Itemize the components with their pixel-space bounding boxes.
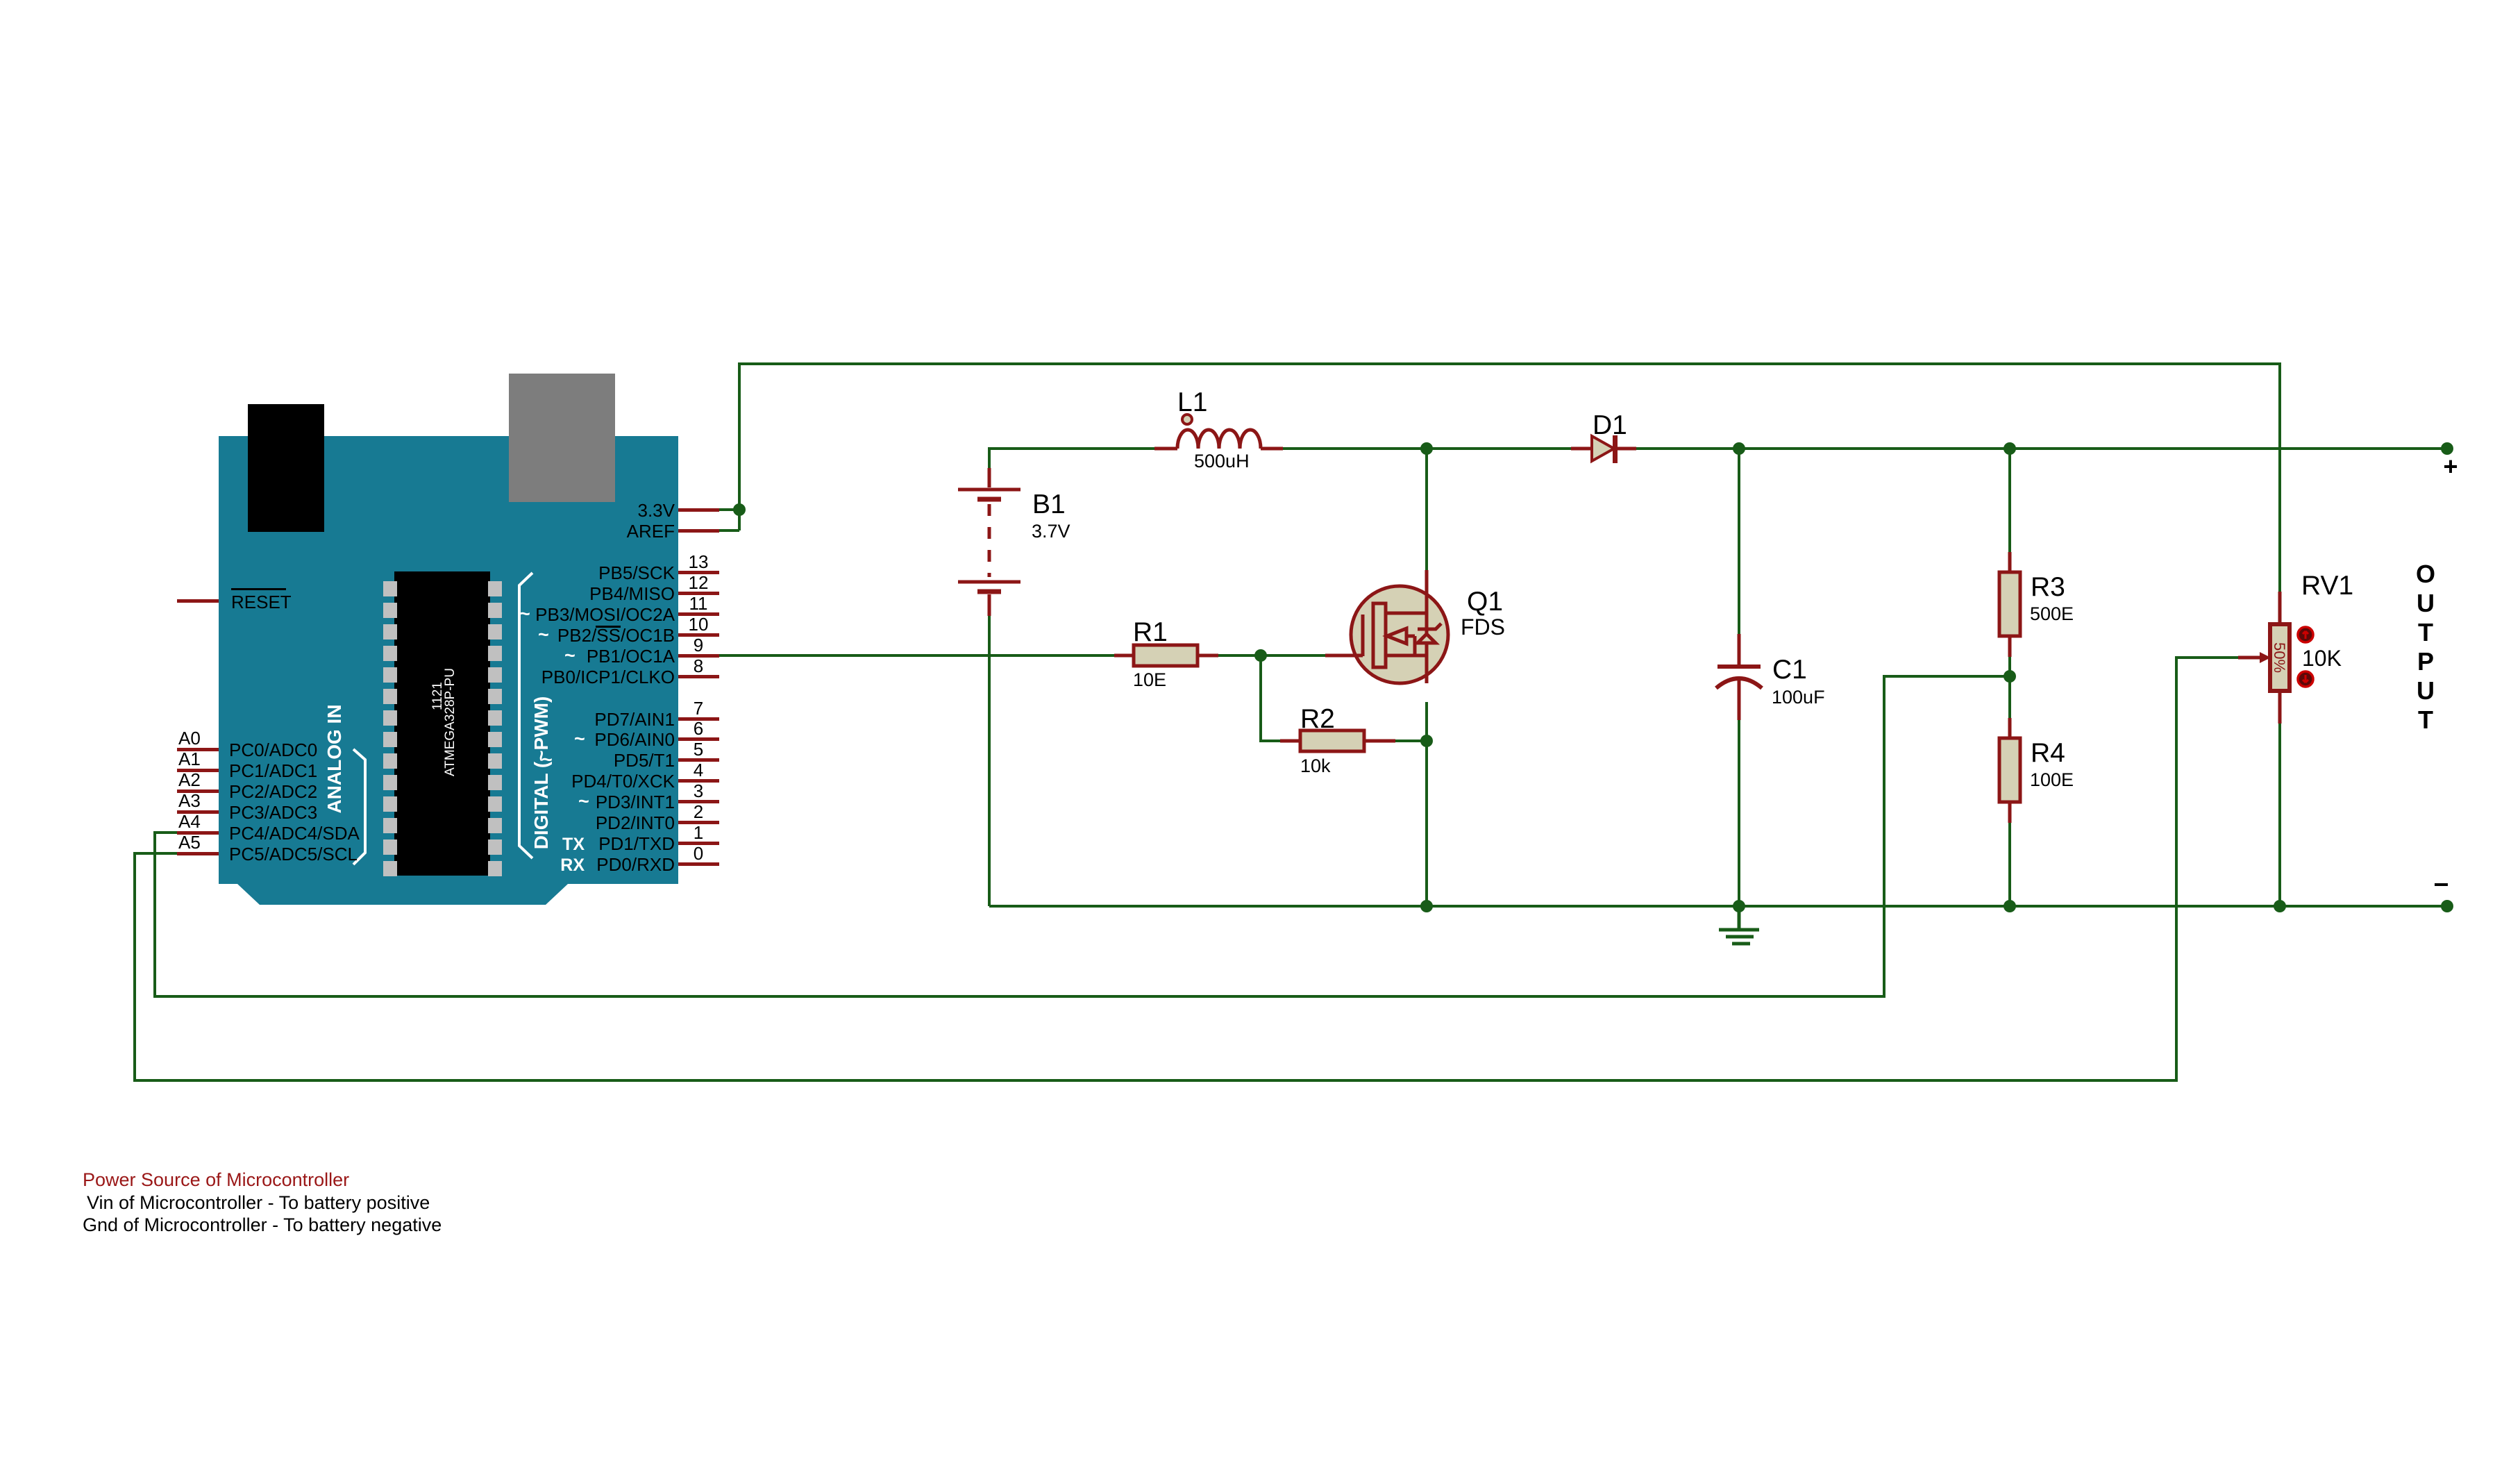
svg-text:6: 6 bbox=[694, 718, 703, 739]
svg-text:RX: RX bbox=[560, 855, 585, 875]
svg-text:T: T bbox=[2418, 705, 2433, 734]
svg-text:TX: TX bbox=[562, 835, 585, 854]
wire R3 bottom to junction bbox=[2008, 657, 2011, 718]
svg-text:R2: R2 bbox=[1300, 704, 1335, 734]
svg-text:13: 13 bbox=[689, 551, 709, 572]
svg-text:1: 1 bbox=[694, 822, 703, 843]
Arduino Uno board body bbox=[219, 436, 678, 905]
svg-text:Q1: Q1 bbox=[1467, 587, 1503, 617]
wire drain vertical bbox=[1425, 449, 1428, 570]
svg-text:PD1/TXD: PD1/TXD bbox=[598, 833, 675, 854]
svg-text:P: P bbox=[2417, 647, 2434, 676]
svg-text:A4: A4 bbox=[178, 811, 201, 832]
svg-text:~: ~ bbox=[574, 728, 585, 749]
svg-text:DIGITAL (~PWM): DIGITAL (~PWM) bbox=[530, 696, 552, 850]
svg-text:PC0/ADC0: PC0/ADC0 bbox=[229, 739, 317, 760]
node 3.3V-AREF junction bbox=[733, 503, 746, 516]
wire R1 to gate with junction bbox=[1218, 654, 1325, 657]
ANALOG IN bracket bbox=[353, 749, 365, 864]
svg-text:PD0/RXD: PD0/RXD bbox=[596, 854, 675, 875]
svg-text:A5: A5 bbox=[178, 832, 201, 853]
svg-text:500uH: 500uH bbox=[1194, 451, 1250, 471]
wire R2 to source junction bbox=[1395, 739, 1427, 742]
svg-text:A0: A0 bbox=[178, 728, 201, 749]
svg-text:PB3/MOSI/OC2A: PB3/MOSI/OC2A bbox=[535, 604, 675, 625]
svg-text:9: 9 bbox=[694, 635, 703, 655]
svg-text:~: ~ bbox=[538, 624, 549, 645]
resistor R2 bbox=[1280, 739, 1395, 743]
node output - terminal bbox=[2441, 900, 2453, 912]
svg-text:Gnd of Microcontroller - To ba: Gnd of Microcontroller - To battery nega… bbox=[83, 1214, 442, 1235]
node output + terminal bbox=[2441, 442, 2453, 455]
node R4 bottom junction bbox=[2004, 900, 2016, 912]
svg-text:4: 4 bbox=[694, 760, 703, 780]
svg-text:3: 3 bbox=[694, 780, 703, 801]
svg-text:8: 8 bbox=[694, 655, 703, 676]
node RV1 bottom junction bbox=[2274, 900, 2286, 912]
wire ground rail bbox=[989, 905, 2447, 908]
svg-text:U: U bbox=[2417, 589, 2435, 617]
minus terminal label bbox=[2435, 883, 2448, 886]
wire top rail from 3.3V to RV1 bbox=[739, 364, 2280, 592]
svg-text:A1: A1 bbox=[178, 749, 201, 769]
capacitor C1 bbox=[1738, 634, 1741, 665]
wire C1 bottom bbox=[1738, 720, 1740, 906]
svg-text:O: O bbox=[2416, 560, 2435, 588]
svg-text:A3: A3 bbox=[178, 790, 201, 811]
svg-text:5: 5 bbox=[694, 739, 703, 760]
RV1 down button bbox=[2298, 671, 2313, 687]
IC pin pads bbox=[383, 581, 502, 876]
RV1 up button bbox=[2298, 627, 2313, 642]
diode D1 bbox=[1571, 447, 1636, 451]
wire source to ground rail bbox=[1425, 702, 1428, 906]
node R3 top junction bbox=[2004, 442, 2016, 455]
DIGITAL bracket bbox=[519, 573, 532, 858]
svg-text:100uF: 100uF bbox=[1772, 687, 1825, 708]
svg-text:Power Source of Microcontrolle: Power Source of Microcontroller bbox=[83, 1169, 349, 1190]
resistor R1 bbox=[1114, 654, 1218, 658]
svg-text:R3: R3 bbox=[2031, 572, 2065, 602]
svg-text:R1: R1 bbox=[1133, 617, 1168, 647]
svg-text:PC4/ADC4/SDA: PC4/ADC4/SDA bbox=[229, 823, 360, 844]
svg-text:3.7V: 3.7V bbox=[1032, 521, 1070, 542]
pin numbers 13..0 bbox=[689, 551, 709, 864]
inductor L1 bbox=[1154, 430, 1283, 449]
svg-text:D1: D1 bbox=[1593, 410, 1627, 440]
svg-text:3.3V: 3.3V bbox=[638, 500, 675, 521]
USB connector bbox=[509, 374, 615, 502]
OUTPUT labels bbox=[2416, 560, 2435, 734]
wire rail2 D1 to + terminal bbox=[1636, 447, 2447, 450]
potentiometer RV1 bbox=[2278, 592, 2282, 724]
svg-text:PD3/INT1: PD3/INT1 bbox=[596, 792, 675, 812]
white tilde marks bbox=[519, 603, 589, 812]
node C1 top junction bbox=[1733, 442, 1745, 455]
wire AREF bbox=[719, 529, 739, 532]
svg-text:PD4/T0/XCK: PD4/T0/XCK bbox=[571, 771, 675, 792]
svg-text:~: ~ bbox=[578, 791, 589, 812]
svg-text:500E: 500E bbox=[2030, 603, 2074, 624]
ground symbol bbox=[1719, 906, 1759, 944]
svg-text:L1: L1 bbox=[1177, 387, 1207, 417]
svg-text:U: U bbox=[2417, 676, 2435, 705]
svg-text:PD7/AIN1: PD7/AIN1 bbox=[594, 709, 675, 730]
svg-text:PB5/SCK: PB5/SCK bbox=[598, 562, 675, 583]
node source-ground junction bbox=[1420, 900, 1433, 912]
resistor R3 bbox=[2008, 552, 2012, 657]
wire pin9 PB1/OC1A to R1 bbox=[719, 654, 1114, 657]
right pin stubs bbox=[678, 508, 719, 866]
svg-text:7: 7 bbox=[694, 698, 703, 719]
wire R3 top bbox=[2008, 449, 2011, 552]
svg-text:FDS: FDS bbox=[1461, 615, 1505, 640]
wire feedback R3R4 junction to PC4/A4 bbox=[155, 676, 2010, 996]
svg-text:10: 10 bbox=[689, 614, 709, 635]
svg-text:A2: A2 bbox=[178, 769, 201, 790]
microcontroller IC U1 body bbox=[394, 571, 490, 876]
svg-text:PC1/ADC1: PC1/ADC1 bbox=[229, 760, 317, 781]
svg-text:~: ~ bbox=[564, 645, 576, 666]
svg-text:PC3/ADC3: PC3/ADC3 bbox=[229, 802, 317, 823]
svg-text:PB1/OC1A: PB1/OC1A bbox=[587, 646, 675, 667]
svg-text:RV1: RV1 bbox=[2301, 571, 2353, 601]
L1 polarity dot bbox=[1182, 415, 1192, 424]
svg-text:11: 11 bbox=[689, 593, 708, 614]
svg-text:100E: 100E bbox=[2030, 769, 2074, 790]
wire battery bottom down to ground rail bbox=[988, 616, 991, 906]
right pin names bbox=[535, 500, 675, 875]
wire PC5/A5 to RV1 wiper bbox=[135, 658, 2238, 1080]
svg-text:R4: R4 bbox=[2031, 738, 2065, 768]
svg-text:10k: 10k bbox=[1300, 755, 1331, 776]
wire R4 bottom bbox=[2008, 823, 2011, 906]
svg-text:50%: 50% bbox=[2271, 642, 2288, 673]
wire RV1 bottom bbox=[2278, 724, 2281, 906]
svg-text:PD2/INT0: PD2/INT0 bbox=[596, 812, 675, 833]
svg-text:2: 2 bbox=[694, 801, 703, 822]
wire battery top to rail bbox=[989, 449, 1154, 468]
svg-text:PB0/ICP1/CLKO: PB0/ICP1/CLKO bbox=[541, 667, 675, 687]
left pin names bbox=[229, 739, 360, 864]
svg-text:~: ~ bbox=[519, 603, 530, 624]
svg-text:12: 12 bbox=[689, 572, 709, 593]
svg-text:PC5/ADC5/SCL: PC5/ADC5/SCL bbox=[229, 844, 358, 864]
svg-text:ATMEGA328P-PU: ATMEGA328P-PU bbox=[443, 668, 457, 776]
svg-text:Vin of Microcontroller - To ba: Vin of Microcontroller - To battery posi… bbox=[87, 1192, 430, 1213]
svg-text:ANALOG IN: ANALOG IN bbox=[324, 704, 345, 813]
A0-A5 labels bbox=[178, 728, 201, 853]
MOSFET Q1 bbox=[1351, 586, 1448, 683]
wire junction down to R2 bbox=[1261, 655, 1280, 741]
svg-text:PB2/SS/OC1B: PB2/SS/OC1B bbox=[557, 625, 675, 646]
svg-text:RESET: RESET bbox=[231, 592, 292, 612]
svg-text:B1: B1 bbox=[1032, 490, 1066, 519]
SS overline bbox=[596, 626, 621, 628]
svg-text:10E: 10E bbox=[1133, 669, 1166, 690]
svg-text:PB4/MISO: PB4/MISO bbox=[589, 583, 675, 604]
svg-text:10K: 10K bbox=[2302, 646, 2342, 671]
node source/R2 junction bbox=[1420, 735, 1433, 747]
wire 3.3V to junction bbox=[719, 508, 739, 511]
svg-text:PC2/ADC2: PC2/ADC2 bbox=[229, 781, 317, 802]
RV1 wiper arrow bbox=[2238, 656, 2260, 660]
node C1 bottom junction bbox=[1733, 900, 1745, 912]
left pin stubs (RESET, A0-A5) bbox=[177, 599, 219, 855]
svg-text:C1: C1 bbox=[1772, 655, 1807, 685]
battery B1 bbox=[958, 468, 1020, 616]
node gate/R2 junction bbox=[1254, 649, 1267, 662]
svg-text:T: T bbox=[2418, 618, 2433, 646]
svg-text:+: + bbox=[2443, 452, 2458, 481]
node L1-D1-drain junction bbox=[1420, 442, 1433, 455]
svg-text:AREF: AREF bbox=[627, 521, 675, 542]
svg-text:0: 0 bbox=[694, 843, 703, 864]
DC power jack bbox=[248, 404, 324, 532]
svg-text:PD5/T1: PD5/T1 bbox=[614, 750, 675, 771]
wire rail2 L1 to D1 bbox=[1283, 447, 1571, 450]
svg-text:~: ~ bbox=[541, 749, 553, 770]
wire C1 top bbox=[1738, 449, 1740, 634]
svg-text:PD6/AIN0: PD6/AIN0 bbox=[594, 729, 675, 750]
resistor R4 bbox=[2008, 718, 2012, 823]
node R3/R4 feedback junction bbox=[2004, 670, 2016, 683]
